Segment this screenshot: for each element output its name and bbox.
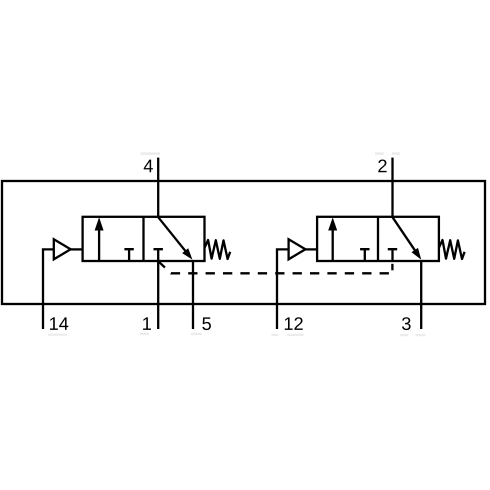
valve V2 flow arrow 1-2 (stem) — [332, 229, 334, 260]
wire: port 5 line — [192, 260, 194, 329]
wire: pilot port 12 line — [277, 249, 289, 329]
return spring (valve 1) — [205, 240, 231, 259]
valve V2 blocked port T (right square, supply) — [388, 249, 397, 260]
wire: port 4 line — [157, 158, 159, 218]
faint artifact bar below label 12 (right piece) — [287, 334, 304, 336]
faint artifact bar below label 5 — [191, 333, 202, 335]
dashed channel: vertical end dash at valve 2 supply — [391, 264, 393, 271]
valve V1 flow arrow 1-4 (stem) — [98, 229, 100, 261]
label: port 12 — [285, 317, 303, 330]
faint artifact bar below label 1 — [140, 333, 149, 335]
arrowhead of V1 diagonal flow path 4-5 — [182, 248, 192, 259]
valve V2 blocked port T (left square) — [360, 249, 369, 260]
faint artifact bar below label 14 — [48, 334, 67, 336]
label: port 3 — [402, 317, 411, 330]
dashed internal pilot channel from port 1 node to valve 2 supply — [158, 261, 392, 273]
faint artifact bar below label 3 (left piece) — [400, 334, 408, 336]
label: port 14 — [50, 317, 68, 330]
wire: port 1 line — [157, 260, 159, 329]
label: port 5 — [202, 317, 211, 330]
faint artifact bar below label 3 (right piece) — [416, 334, 426, 336]
valve V1 blocked port T (right square, port 1) — [154, 249, 163, 260]
valve V2 flow path 2-3 (diagonal) — [393, 217, 418, 254]
valve V1 blocked port T (left square) — [124, 249, 133, 260]
pilot actuator triangle (valve 2, port 12) — [289, 239, 306, 259]
wire: port 2 line — [391, 158, 393, 218]
label: port 4 — [144, 160, 153, 173]
faint artifact bar above label 4 — [141, 152, 161, 155]
faint artifact bar below label 12 (left piece) — [271, 334, 278, 336]
outer enclosure box — [2, 181, 485, 304]
label: port 1 — [143, 317, 151, 330]
arrowhead of V1 flow arrow 1-4 — [95, 217, 104, 230]
valve V2 position divider — [377, 217, 379, 261]
label: port 2 — [378, 159, 386, 172]
return spring (valve 2) — [439, 240, 465, 259]
valve V1 flow path 4-5 (diagonal) — [158, 217, 188, 255]
faint artifact bar above label 2 (left piece) — [375, 152, 384, 155]
wire: pilot port 14 line — [43, 249, 54, 329]
arrowhead of V2 flow arrow 1-2 — [328, 217, 337, 230]
wire: port 3 line — [420, 260, 422, 329]
faint artifact bar above label 2 (right piece) — [392, 152, 400, 155]
wire: pilot 14 triangle tip to valve 1 body — [69, 248, 83, 250]
valve V1 position divider — [142, 217, 144, 261]
wire: pilot 12 triangle tip to valve 2 body — [304, 248, 318, 250]
arrowhead of V2 diagonal flow path 2-3 — [412, 248, 422, 260]
valve V2 body (3/2 valve, right) — [317, 217, 439, 261]
valve V1 body (3/2 valve, left) — [83, 217, 205, 261]
pilot actuator triangle (valve 1, port 14) — [54, 239, 71, 259]
